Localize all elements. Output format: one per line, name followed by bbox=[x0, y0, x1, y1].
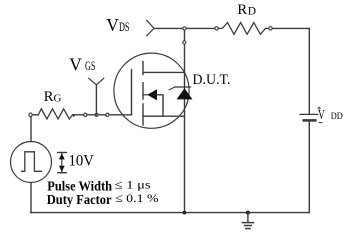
ground bar 3 bbox=[246, 228, 250, 230]
bottom wire bbox=[31, 212, 310, 214]
svg-text:V: V bbox=[106, 15, 119, 35]
body lead bbox=[157, 95, 163, 116]
right rail upper bbox=[308, 28, 310, 113]
label VDS bbox=[106, 15, 129, 35]
zigzag end dot bbox=[73, 115, 75, 117]
battery VDD plate long bbox=[300, 113, 318, 115]
10V arrowhead up bbox=[59, 153, 65, 159]
resistor RD bbox=[218, 23, 268, 35]
drain lead bbox=[143, 71, 185, 73]
10V dimension bottom bar bbox=[58, 172, 66, 174]
MOSFET DUT circle bbox=[114, 53, 189, 128]
wire pulse-gen top to gate terminal bbox=[30, 115, 32, 142]
channel segment middle bbox=[142, 83, 144, 99]
svg-text:D.U.T.: D.U.T. bbox=[193, 72, 231, 88]
probe VGS stem bbox=[95, 85, 97, 115]
ground bar 1 bbox=[242, 222, 253, 224]
label 10V bbox=[69, 152, 95, 169]
svg-text:G: G bbox=[54, 93, 62, 105]
label VGS bbox=[69, 55, 95, 75]
10V dimension line bbox=[61, 153, 63, 173]
channel segment top bbox=[142, 62, 144, 75]
junction terminal on drain vertical bbox=[183, 41, 186, 44]
body diode cathode tick bbox=[169, 87, 175, 90]
resistor RD terminal right bbox=[269, 27, 272, 30]
10V arrowhead down bbox=[59, 166, 65, 172]
svg-text:DD: DD bbox=[331, 112, 343, 122]
pulse waveform bbox=[22, 152, 42, 172]
duty factor note bbox=[47, 191, 159, 207]
junction terminal on top wire bbox=[183, 27, 186, 30]
terminal node a bbox=[84, 113, 87, 116]
svg-text:Duty Factor: Duty Factor bbox=[47, 192, 112, 207]
wire pulse-gen bottom to bottom rail bbox=[30, 183, 32, 213]
probe VGS arms bbox=[89, 78, 104, 85]
drain-source vertical wire bbox=[184, 28, 186, 212]
ground bar 2 bbox=[245, 225, 252, 227]
battery minus mark bbox=[319, 122, 322, 124]
svg-text:≤ 0.1 %: ≤ 0.1 % bbox=[115, 191, 159, 205]
svg-text:GS: GS bbox=[85, 59, 95, 73]
body diode triangle bbox=[177, 88, 193, 99]
wire RD to right rail bbox=[272, 27, 309, 29]
probe VDS arms bbox=[147, 20, 154, 36]
body arrow bbox=[147, 89, 157, 100]
label RG bbox=[44, 89, 62, 105]
battery VDD plate short bbox=[304, 119, 316, 122]
terminal node c bbox=[106, 113, 109, 116]
wire gate net bbox=[73, 114, 132, 116]
pulse generator source bbox=[11, 142, 52, 183]
ground stub bbox=[247, 213, 249, 223]
wire RG lead left bbox=[31, 114, 38, 116]
terminal node b bbox=[95, 113, 98, 116]
svg-text:DS: DS bbox=[119, 20, 130, 34]
svg-text:V: V bbox=[69, 55, 82, 75]
terminal (pulse gen to RG) bbox=[29, 113, 32, 116]
body arrow stub bbox=[143, 94, 147, 96]
svg-text:≤ 1 μs: ≤ 1 μs bbox=[115, 177, 151, 191]
resistor RD terminal left bbox=[215, 27, 218, 30]
junction dot drain at bottom bbox=[183, 211, 187, 215]
label RD bbox=[237, 2, 256, 18]
svg-text:D: D bbox=[248, 6, 256, 18]
channel segment bottom bbox=[142, 104, 144, 125]
top wire bbox=[154, 27, 217, 29]
ground junction dot bbox=[246, 211, 250, 215]
battery plus mark bbox=[318, 107, 321, 109]
right rail lower bbox=[308, 122, 310, 213]
pulse width note bbox=[47, 177, 151, 193]
label DUT bbox=[193, 72, 231, 88]
source lead bbox=[143, 115, 185, 117]
resistor RG bbox=[38, 109, 72, 119]
svg-text:R: R bbox=[237, 2, 247, 18]
label VDD bbox=[318, 107, 343, 122]
body diode cathode bar bbox=[175, 86, 191, 88]
svg-text:10V: 10V bbox=[69, 152, 95, 169]
svg-text:R: R bbox=[44, 89, 54, 105]
10V dimension top bar bbox=[58, 152, 66, 154]
gate bar bbox=[131, 70, 133, 115]
